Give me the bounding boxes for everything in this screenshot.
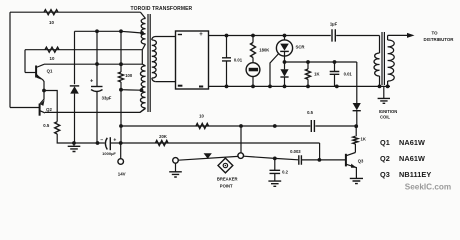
wire secondary to rectifier top bbox=[156, 36, 176, 38]
node D2 bus junction bbox=[283, 85, 287, 89]
wire HV bottom bus y=86.4 bbox=[209, 85, 391, 87]
wire Q2 collector line y=112.4 bbox=[45, 109, 146, 113]
svg-text:180K: 180K bbox=[259, 47, 269, 52]
node lamp bus junction bbox=[251, 85, 255, 89]
ignition coil core bbox=[382, 32, 384, 85]
node D3 line junction bbox=[354, 124, 358, 128]
node transformer upper tap bbox=[140, 31, 144, 35]
node rail-collector junction bbox=[119, 62, 123, 66]
svg-text:COIL: COIL bbox=[380, 115, 390, 120]
wire left frame vertical bbox=[9, 12, 11, 107]
svg-text:0.01: 0.01 bbox=[344, 71, 353, 76]
node R6 bus junction bbox=[306, 85, 310, 89]
wire breaker to base node bbox=[243, 156, 274, 158]
wire winding junction x=142.3 bbox=[141, 50, 143, 64]
terminal breaker (top) bbox=[238, 153, 244, 159]
svg-text:20K: 20K bbox=[159, 134, 167, 139]
ground G1 (main bus) bbox=[73, 143, 75, 146]
node gate bus junction bbox=[268, 85, 272, 89]
wire base riser x=25 bbox=[24, 50, 26, 73]
svg-text:BREAKER: BREAKER bbox=[217, 177, 238, 182]
breaker moving contact (triangle) bbox=[204, 153, 212, 159]
wire trigger line y=126 bbox=[121, 125, 356, 127]
resistor R3 0.5 bbox=[55, 122, 60, 134]
wire to distributor bbox=[388, 34, 408, 36]
diode D2 (below SCR) bbox=[284, 62, 286, 69]
node C4 bus junction bbox=[335, 85, 339, 89]
node HV bus 180K junction bbox=[251, 34, 255, 38]
svg-text:−: − bbox=[100, 137, 103, 143]
svg-text:NA61W: NA61W bbox=[399, 138, 425, 147]
ignition coil secondary bbox=[387, 35, 389, 40]
wire 180K to trigger lamp bbox=[252, 58, 254, 63]
svg-text:NB111EY: NB111EY bbox=[399, 170, 431, 179]
wire Q1 emitter to 0.5 resistor bbox=[44, 91, 57, 113]
bridge rectifier U1 bbox=[176, 31, 209, 89]
node HV bus 0.01 junction bbox=[225, 34, 229, 38]
svg-text:100: 100 bbox=[125, 73, 133, 78]
diode D1 (flyback, cathode up) bbox=[70, 85, 79, 87]
node C4 top junction bbox=[333, 60, 337, 64]
capacitor C4 0.01 bbox=[334, 62, 336, 71]
svg-text:NA61W: NA61W bbox=[399, 154, 425, 163]
wire tap riser x=97 upper bbox=[96, 31, 98, 64]
transistor Q2 (PNP) bbox=[39, 104, 41, 116]
svg-text:1K: 1K bbox=[361, 137, 366, 142]
wire bus segment to 33uF bbox=[74, 142, 98, 144]
node 33uF bus junction bbox=[96, 141, 100, 145]
svg-text:0.01: 0.01 bbox=[234, 57, 243, 62]
label rectifier minus bbox=[199, 86, 203, 88]
wire top bus y=13 bbox=[10, 11, 141, 13]
capacitor C6 0.5 (in trigger line) bbox=[311, 120, 314, 132]
wire breaker drop x=241 bbox=[240, 126, 242, 153]
resistor R2 10 bbox=[45, 47, 59, 52]
toroid secondary winding bbox=[152, 37, 156, 41]
terminal 14V bbox=[118, 159, 124, 165]
breaker cam (diamond) bbox=[218, 158, 233, 173]
node coil secondary bus junction bbox=[386, 85, 390, 89]
wire Q1 emitter to Q2 bbox=[40, 91, 44, 104]
toroid primary lower winding bbox=[142, 64, 145, 66]
node HV bus SCR junction bbox=[283, 34, 287, 38]
wire secondary to rectifier bottom bbox=[156, 81, 176, 83]
svg-text:0.2: 0.2 bbox=[282, 170, 288, 175]
toroid core bbox=[148, 14, 150, 112]
node R6 top junction bbox=[306, 60, 310, 64]
ignition coil primary bbox=[374, 53, 379, 76]
capacitor C5 1uF (in HV bus) bbox=[332, 29, 335, 41]
svg-text:14V: 14V bbox=[118, 172, 126, 177]
ground G5 (Q3 emitter) bbox=[350, 178, 363, 183]
wire bus to 1000uF bbox=[98, 142, 105, 144]
resistor R1 10 (top bus) bbox=[44, 10, 58, 15]
resistor R9 1K bbox=[355, 126, 357, 136]
node coil primary bus junction bbox=[378, 85, 382, 89]
resistor R7 10 bbox=[196, 124, 209, 129]
svg-text:+: + bbox=[113, 138, 116, 144]
wire Q3 base line bbox=[275, 158, 346, 160]
node C3 bus junction bbox=[225, 85, 229, 89]
svg-text:SeekIC.com: SeekIC.com bbox=[405, 183, 451, 192]
ground G2 (ignition coil) bbox=[383, 86, 385, 98]
capacitor C2 1000uF (electrolytic) bbox=[105, 138, 107, 150]
svg-text:IGNITION: IGNITION bbox=[379, 109, 398, 114]
wire 0.5 resistor lead bbox=[56, 112, 58, 121]
wire 20K line y=143 bbox=[121, 142, 320, 144]
capacitor C8 0.2 bbox=[274, 158, 276, 170]
svg-text:+: + bbox=[199, 32, 203, 38]
thyristor SCR1 bbox=[276, 40, 292, 56]
wire rail x=121 lower bbox=[120, 82, 122, 143]
svg-text:0.003: 0.003 bbox=[290, 149, 301, 154]
wire breaker contact line bbox=[178, 156, 238, 160]
toroid primary upper winding bbox=[141, 12, 146, 18]
svg-text:Q1: Q1 bbox=[47, 68, 53, 73]
capacitor C7 0.003 bbox=[299, 155, 302, 165]
node Q1 emitter junction bbox=[42, 89, 46, 93]
wire cathode line y=62 bbox=[285, 61, 357, 63]
wire 0.5 resistor to bus bbox=[57, 134, 74, 143]
node rail tap junction y=89.7 bbox=[119, 88, 123, 92]
node tap-line junction x=97 bbox=[95, 29, 99, 33]
node rail junction y=126 bbox=[119, 124, 123, 128]
wire HV top bus y=35.5 bbox=[209, 35, 380, 37]
label rectifier AC bottom bbox=[178, 85, 183, 87]
svg-text:Q1: Q1 bbox=[380, 138, 390, 147]
wire HV bus corner to coil bbox=[379, 36, 381, 54]
node rail-bus junction (14V node) bbox=[119, 141, 123, 145]
svg-text:0.5: 0.5 bbox=[43, 123, 50, 128]
node 20K base junction bbox=[318, 158, 322, 162]
wire collector line y=64.2 bbox=[44, 63, 142, 65]
capacitor C3 0.01 bbox=[226, 36, 228, 58]
node tap-line junction x=121 bbox=[119, 29, 123, 33]
node 33uF top junction bbox=[95, 62, 99, 66]
arrow to distributor bbox=[407, 33, 415, 38]
svg-text:1000µF: 1000µF bbox=[102, 151, 116, 156]
transistor Q1 (PNP) bbox=[35, 66, 37, 78]
trigger lamp NE1 (neon) bbox=[246, 63, 260, 77]
node trigger line base junction bbox=[273, 124, 277, 128]
svg-text:Q3: Q3 bbox=[358, 159, 364, 164]
wire SCR gate bbox=[270, 54, 279, 87]
resistor R4 100 bbox=[119, 72, 124, 82]
node breaker base junction bbox=[273, 157, 277, 161]
node trigger line breaker junction bbox=[239, 124, 243, 128]
svg-text:Q2: Q2 bbox=[46, 107, 52, 112]
wire 14V drop bbox=[120, 143, 122, 159]
node SCR cathode junction bbox=[283, 60, 287, 64]
svg-text:1K: 1K bbox=[314, 71, 319, 76]
svg-text:0.5: 0.5 bbox=[307, 110, 313, 115]
svg-text:TOROID TRANSFORMER: TOROID TRANSFORMER bbox=[131, 6, 193, 12]
transistor Q3 (NPN) bbox=[345, 154, 347, 167]
wire flyback diode branch x=74.5 bbox=[74, 31, 76, 84]
svg-text:TO: TO bbox=[431, 31, 438, 36]
wire R2 line y=49.7 bbox=[25, 49, 142, 51]
resistor R8 20K bbox=[156, 141, 169, 146]
svg-text:10: 10 bbox=[49, 20, 54, 25]
svg-text:Q3: Q3 bbox=[380, 170, 390, 179]
svg-text:10: 10 bbox=[199, 114, 204, 119]
wire lower tap line bbox=[121, 89, 141, 92]
node diode-bus junction bbox=[72, 141, 76, 145]
svg-text:DISTRIBUTOR: DISTRIBUTOR bbox=[424, 37, 455, 42]
svg-text:Q2: Q2 bbox=[380, 154, 390, 163]
svg-text:POINT: POINT bbox=[220, 183, 233, 188]
svg-text:SCR: SCR bbox=[295, 44, 305, 49]
node transformer lower tap bbox=[140, 88, 144, 92]
capacitor C1 33uF (electrolytic) bbox=[96, 64, 98, 86]
resistor R6 1K bbox=[307, 62, 309, 69]
svg-text:33µF: 33µF bbox=[102, 95, 112, 100]
svg-text:1µF: 1µF bbox=[330, 22, 338, 27]
label rectifier AC top bbox=[178, 34, 182, 36]
resistor R5 180K bbox=[252, 36, 254, 43]
svg-text:10: 10 bbox=[50, 56, 55, 61]
terminal breaker ground side bbox=[173, 158, 179, 164]
wire Q1 base bbox=[25, 72, 36, 74]
wire 20K drop bbox=[319, 143, 321, 160]
wire rail x=121 bbox=[120, 31, 122, 72]
ground G4 (0.2 cap) bbox=[268, 181, 281, 186]
wire cathode drop x=356.8 bbox=[356, 62, 358, 103]
wire tap line y=31.3 bbox=[75, 31, 143, 33]
diode D3 (to trigger line) bbox=[353, 103, 361, 110]
ground G3 (breaker) bbox=[175, 163, 177, 171]
wire Q2 base from frame bbox=[10, 107, 39, 109]
